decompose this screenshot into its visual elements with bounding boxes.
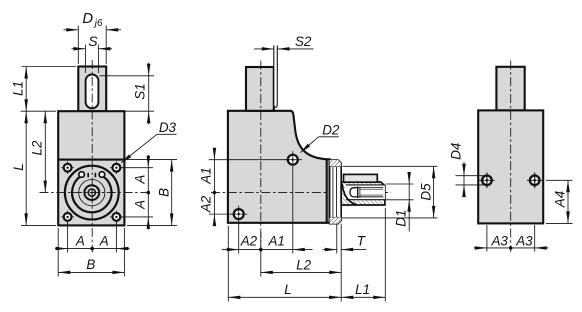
middle view: clamp bell contour: [342, 184, 356, 205]
svg-text:B: B: [86, 257, 95, 272]
svg-text:L1: L1: [355, 282, 370, 297]
right view: side mounting hole D4 #2: [527, 173, 543, 189]
dimension S1 (keyway length): [100, 63, 155, 125]
svg-text:B: B: [156, 188, 171, 197]
dimension L1 (shaft length): [11, 67, 76, 112]
svg-text:A: A: [133, 200, 148, 210]
right view: side mounting hole D4 #1: [479, 173, 495, 189]
left view: corner screw hole D3 #3: [61, 211, 74, 224]
left view: clamp slot tick left: [87, 173, 89, 178]
right view: input shaft: [496, 67, 524, 111]
svg-text:A: A: [133, 175, 148, 185]
left view: center dot: [91, 192, 93, 194]
middle view: side hole lower-left with crosshair: [230, 206, 247, 223]
middle view: keyway slot edge-on: [274, 46, 278, 108]
svg-text:L: L: [284, 282, 291, 297]
left view: gear body upper box: [58, 111, 124, 159]
dimension D j6 (shaft diameter): [64, 11, 122, 64]
svg-text:L2: L2: [30, 140, 45, 155]
left view: input shaft (front view): [78, 67, 106, 112]
svg-text:A1: A1: [268, 234, 285, 249]
svg-text:D4: D4: [448, 143, 463, 160]
left view: center hole circle: [88, 189, 95, 196]
middle view: hub clamping cap: [344, 174, 378, 182]
svg-text:j6: j6: [93, 18, 103, 29]
svg-text:T: T: [357, 234, 366, 249]
dimension B vertical (flange height): [127, 160, 177, 226]
left view: keyway slot in shaft: [86, 75, 99, 109]
svg-text:D5: D5: [419, 183, 434, 201]
svg-text:L2: L2: [296, 258, 311, 273]
middle view: body right edge line: [326, 160, 328, 223]
svg-text:A2: A2: [240, 234, 258, 249]
left view: clamp ring C-arc: [72, 175, 111, 212]
middle view: output hub block section: [341, 182, 385, 205]
dimension A vertical (screw spacing half) right of flange: [121, 155, 153, 230]
middle view: horizontal centerline: [211, 192, 391, 194]
left view: mounting flange face: [58, 160, 124, 226]
svg-text:A: A: [75, 233, 85, 248]
svg-text:D2: D2: [322, 123, 340, 138]
svg-text:D: D: [82, 11, 93, 27]
left view: corner screw hole D3 #4: [110, 211, 123, 224]
svg-text:D3: D3: [159, 120, 177, 135]
left view: corner screw hole D3 #1: [61, 161, 74, 174]
left view: clamp screw ear right: [99, 172, 105, 178]
svg-text:A4: A4: [552, 191, 567, 208]
left view: clamp slot tick right: [94, 173, 96, 178]
right view: gear body rear face: [478, 110, 543, 223]
svg-text:S: S: [88, 34, 98, 49]
dimension D4 (hole diameter): [448, 143, 483, 198]
left view: hub middle circle: [79, 180, 105, 206]
svg-text:A2: A2: [199, 195, 214, 213]
dimension A1 A2 vertical left of body: [199, 148, 287, 226]
dimension L2 (body top to axis): [30, 111, 48, 192]
left view: vertical centerline: [91, 60, 93, 253]
dimension D1 (clamp bore diameter): [386, 172, 414, 232]
svg-text:A3: A3: [515, 234, 533, 249]
left view: clamp screw ear left: [79, 172, 85, 178]
right view: vertical centerline: [510, 61, 512, 253]
dimension A4 (hole to bottom): [546, 180, 573, 223]
middle view: vertical centerline: [260, 61, 262, 253]
dimension D5 (flange boss diameter): [342, 166, 438, 218]
dimension S (keyway width): [72, 34, 113, 73]
svg-text:S2: S2: [295, 34, 312, 49]
middle view: shaft top edge: [245, 66, 274, 68]
middle view: hole D2 on shelf with crosshair: [285, 151, 302, 168]
middle view: gear body L-profile: [228, 111, 330, 223]
dimension A horizontal (screw spacing) below flange: [55, 223, 129, 253]
svg-text:A3: A3: [491, 234, 509, 249]
dimension L2 horizontal (axis to flange face): [261, 232, 341, 277]
dimension B horizontal (flange width): [58, 228, 124, 277]
middle view: mounting flange plate section: [330, 160, 342, 224]
left view: corner screw hole D3 #2: [110, 161, 123, 174]
svg-text:L1: L1: [11, 81, 26, 96]
dimension L1 horizontal (hub protrusion): [341, 208, 385, 302]
dimension L (body height): [11, 111, 56, 225]
left view: horizontal centerline: [40, 192, 151, 194]
middle view: input shaft side view: [246, 67, 274, 111]
label D3 with leader to corner screw: [121, 120, 177, 163]
left view: bore circle: [84, 185, 99, 200]
dimension chain A2 A1 T below body: [222, 168, 366, 301]
middle view: hub bore with threaded stud: [346, 185, 385, 200]
dimension S2 (keyway width side): [254, 34, 314, 50]
svg-text:S1: S1: [132, 83, 147, 99]
left view: output hub outer circle: [65, 166, 119, 220]
dimension L horizontal (body width): [228, 282, 341, 299]
middle view: flange hatching top: [330, 160, 342, 166]
svg-text:A: A: [99, 233, 109, 248]
label D2 with leader to hole: [300, 123, 340, 153]
middle view: flange hatching bottom: [330, 217, 342, 223]
svg-text:L: L: [11, 163, 26, 170]
dimension A3 A3 (hole spacing): [474, 225, 549, 252]
svg-text:A1: A1: [199, 167, 214, 184]
